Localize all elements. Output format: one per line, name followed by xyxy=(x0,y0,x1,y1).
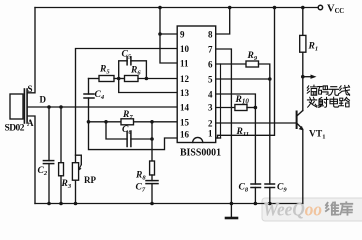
capacitor C8 xyxy=(251,108,261,204)
wire IC pin 7 down to ground bus xyxy=(216,49,232,204)
svg-text:R1: R1 xyxy=(308,42,319,53)
sensor SD02 body xyxy=(10,89,27,123)
node dot rail to pin 1 branch xyxy=(273,6,277,10)
capacitor C5 xyxy=(119,57,147,79)
node dot junction A xyxy=(117,77,121,81)
wire IC pin 9 stub xyxy=(160,33,177,35)
node dot rail to R1 xyxy=(301,6,305,10)
watermark 维库 text xyxy=(326,202,352,214)
wire IC pin 5 line xyxy=(216,78,270,80)
svg-text:11: 11 xyxy=(180,59,189,69)
svg-text:SD02: SD02 xyxy=(5,124,25,134)
resistor R7 xyxy=(121,119,134,125)
resistor R10 xyxy=(235,105,247,111)
resistor R6 xyxy=(125,76,139,82)
svg-text:R5: R5 xyxy=(99,65,110,76)
label transmitter text line 1 编码无线 xyxy=(307,85,349,95)
svg-text:R6: R6 xyxy=(130,66,141,77)
node dot junction B xyxy=(145,77,149,81)
wire R9 right corner down to pin 5 node xyxy=(259,64,270,79)
svg-text:14: 14 xyxy=(180,103,190,113)
node dot R9 pin 5 junction xyxy=(268,77,272,81)
svg-text:13: 13 xyxy=(180,88,190,98)
resistor R8 xyxy=(150,122,155,181)
wire IC pin 10 to RP xyxy=(76,49,178,163)
svg-text:12: 12 xyxy=(180,74,190,84)
wire IC pin 1 stub xyxy=(216,137,221,139)
svg-text:6: 6 xyxy=(208,60,213,70)
node dot R3 to D line xyxy=(59,105,63,109)
wire ground bus xyxy=(35,203,303,205)
svg-text:C8: C8 xyxy=(239,183,249,194)
wire IC pin 6 to R9 xyxy=(216,63,246,65)
svg-text:8: 8 xyxy=(208,30,213,40)
svg-text:VCC: VCC xyxy=(327,3,344,15)
wire R10 to junction xyxy=(247,107,255,109)
label transmitter text line 2 发射电路 xyxy=(307,97,349,107)
node dot C8 to bus xyxy=(254,202,258,206)
node dot R10 pin 4 junction xyxy=(254,106,258,110)
wire R5 left branch xyxy=(89,78,100,80)
svg-text:S: S xyxy=(28,84,33,94)
capacitor C6 xyxy=(106,122,152,147)
node dot C9 to bus xyxy=(268,202,272,206)
svg-text:A: A xyxy=(27,118,34,128)
potentiometer RP xyxy=(72,155,81,203)
wire IC pin 8 up to Vcc rail xyxy=(216,8,230,35)
svg-text:WeeQoo: WeeQoo xyxy=(263,201,322,221)
svg-text:16: 16 xyxy=(180,130,190,140)
wire IC pin 2 to transistor base xyxy=(216,122,297,124)
wire junction A down to IC pin 13 xyxy=(119,79,178,93)
wire Vcc top rail xyxy=(35,7,318,9)
svg-text:C4: C4 xyxy=(95,90,105,101)
svg-text:10: 10 xyxy=(180,44,190,54)
wire R5 to junction A xyxy=(114,78,125,80)
node dot C6 right leg xyxy=(150,137,154,141)
svg-text:C2: C2 xyxy=(38,166,48,177)
svg-text:7: 7 xyxy=(208,45,213,55)
node dot R1 collector output junction xyxy=(301,75,305,79)
svg-text:C7: C7 xyxy=(136,183,146,194)
resistor R3 xyxy=(59,107,64,204)
node dot pin 9 junction xyxy=(158,32,162,36)
svg-text:RP: RP xyxy=(84,175,96,185)
svg-text:R8: R8 xyxy=(135,171,146,182)
wire S terminal up to Vcc rail xyxy=(28,8,35,93)
capacitor C4 xyxy=(84,79,94,122)
node dot C4 R7 junction xyxy=(87,120,91,124)
node dot C2 to bus xyxy=(47,202,51,206)
svg-text:15: 15 xyxy=(180,117,190,127)
svg-text:R3: R3 xyxy=(61,179,72,190)
svg-text:VT1: VT1 xyxy=(309,130,325,141)
wire pin 6 to pin 1 vertical tie xyxy=(220,64,222,138)
resistor R9 xyxy=(246,61,259,67)
node dot C6 left leg xyxy=(104,120,108,124)
node dot rail to pin 9 drop xyxy=(158,6,162,10)
wire IC pin 3 to R10 xyxy=(216,107,235,109)
wire R6 to junction B and IC pin 12 xyxy=(138,78,177,80)
svg-text:2: 2 xyxy=(208,119,213,129)
node dot R8 C7 to bus xyxy=(150,202,154,206)
svg-text:R11: R11 xyxy=(236,127,250,138)
node dot rail pin 8 xyxy=(228,6,232,10)
output arrow to transmitter xyxy=(303,75,317,79)
wire Vcc rail down through pin 9 to pin 11 xyxy=(160,8,177,64)
node dot R3 to bus xyxy=(59,202,63,206)
wire pin 15 line xyxy=(89,121,178,123)
svg-text:4: 4 xyxy=(208,90,213,100)
svg-text:R7: R7 xyxy=(122,110,133,121)
wire pin 1 jog to Vcc branch line xyxy=(218,8,275,139)
svg-text:D: D xyxy=(40,95,47,105)
wire A terminal down to ground bus xyxy=(28,116,35,204)
resistor R5 xyxy=(99,76,114,82)
svg-text:C5: C5 xyxy=(122,50,132,61)
ground xyxy=(226,204,237,219)
capacitor C7 xyxy=(146,181,158,204)
svg-text:R9: R9 xyxy=(247,51,258,62)
capacitor C2 xyxy=(43,107,53,204)
node dot R8 chain top xyxy=(150,120,154,124)
Vcc terminal xyxy=(318,5,322,9)
node dot RP to bus xyxy=(74,202,78,206)
svg-text:5: 5 xyxy=(208,75,213,85)
op-amp U1 BISS0001 body xyxy=(177,26,216,143)
svg-text:BISS0001: BISS0001 xyxy=(180,148,221,159)
watermark WeeQoo box xyxy=(262,198,362,221)
node dot C2 to D line xyxy=(47,105,51,109)
wire pin 16 loop xyxy=(89,122,178,150)
transistor VT1 xyxy=(297,77,304,204)
svg-text:R10: R10 xyxy=(235,95,250,106)
svg-text:9: 9 xyxy=(180,30,185,40)
svg-text:C6: C6 xyxy=(122,125,132,136)
resistor R1 xyxy=(300,8,306,77)
capacitor C9 xyxy=(265,79,275,204)
wire D line to IC pin 14 xyxy=(28,106,177,108)
node dot pin 7 to bus xyxy=(230,202,234,206)
svg-text:3: 3 xyxy=(208,103,213,113)
wire IC pin 4 corner down to R10 node xyxy=(216,94,256,108)
svg-text:1: 1 xyxy=(208,129,213,139)
svg-text:C9: C9 xyxy=(277,183,287,194)
